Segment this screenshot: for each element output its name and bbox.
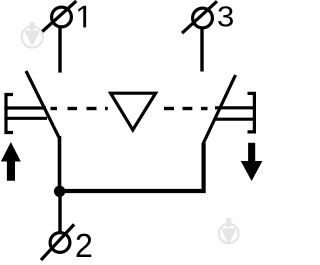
- left contact actuator bracket: [6, 95, 13, 133]
- down arrow (actuation direction): [241, 143, 263, 181]
- terminal 2 symbol (circle with slash): [41, 224, 74, 260]
- junction node dot: [54, 186, 65, 197]
- left contact link lines: [4, 108, 47, 118]
- right contact actuator bracket: [248, 93, 255, 131]
- pin number 1: [78, 6, 86, 28]
- wire to terminal 2: [58, 191, 61, 232]
- pin number 2: [77, 234, 92, 257]
- wire from terminal 1: [58, 28, 61, 73]
- bottom wire from right contact to junction: [60, 143, 204, 191]
- pin number 3: [218, 6, 233, 26]
- dashed mechanical linkage line: [51, 107, 208, 110]
- right contact link lines: [215, 108, 256, 119]
- terminal 3 symbol (circle with slash): [182, 1, 217, 33]
- watermark top-left (gray arrow-in-ring logo): [22, 22, 43, 47]
- up arrow (actuation direction): [1, 142, 21, 181]
- right contact movable arm: [203, 75, 236, 144]
- left vertical wire (arm bottom to junction): [58, 136, 62, 191]
- actuator triangle: [111, 93, 156, 130]
- watermark bottom-right (gray arrow-in-ring logo): [219, 218, 239, 243]
- wire from terminal 3: [200, 29, 203, 72]
- left contact movable arm: [26, 71, 59, 138]
- terminal 1 symbol (circle with slash): [42, 1, 76, 32]
